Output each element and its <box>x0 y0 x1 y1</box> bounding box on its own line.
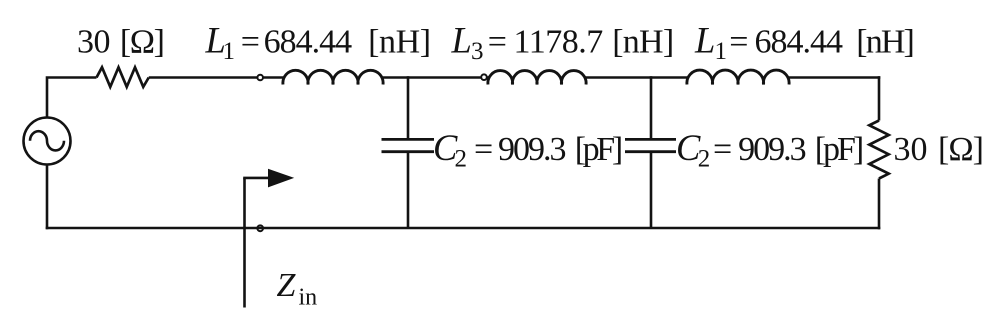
wire resistor to node a <box>149 76 257 79</box>
svg-text:=: = <box>241 24 260 61</box>
svg-text:2: 2 <box>455 146 468 173</box>
wire RL to bottom rail <box>878 179 881 230</box>
svg-text:684.44: 684.44 <box>755 24 844 61</box>
svg-text:L: L <box>451 20 472 61</box>
svg-text:30: 30 <box>894 131 928 168</box>
svg-text:[pF]: [pF] <box>815 131 865 168</box>
inductor L3 <box>488 71 586 85</box>
label L1b value <box>694 20 915 66</box>
svg-text:=: = <box>488 24 507 61</box>
svg-text:2: 2 <box>698 146 711 173</box>
svg-text:30: 30 <box>77 24 111 61</box>
svg-text:909.3: 909.3 <box>498 131 567 168</box>
label L3 value <box>451 20 675 66</box>
svg-text:=: = <box>713 131 732 168</box>
wire shunt C2a upper <box>407 76 410 139</box>
wire L1 to node b <box>382 76 481 79</box>
wire right corner down to RL <box>878 76 881 120</box>
wire node a to L1 <box>263 76 284 79</box>
label 30 ohm left <box>77 24 165 61</box>
wire source to bottom rail <box>46 165 49 230</box>
wire L1b to right corner <box>788 76 881 79</box>
label C2a value <box>433 127 623 173</box>
wire L3 to node c and on to L1b <box>585 76 689 79</box>
svg-text:684.44: 684.44 <box>264 24 353 61</box>
svg-text:[pF]: [pF] <box>575 131 624 168</box>
svg-text:1: 1 <box>715 38 728 65</box>
svg-text:[Ω]: [Ω] <box>120 24 165 61</box>
inductor L1 <box>283 70 383 84</box>
wire shunt C2b lower <box>650 152 653 228</box>
node b (open terminal) <box>481 74 487 80</box>
svg-text:L: L <box>694 20 715 61</box>
wire node b to L3 <box>487 76 489 79</box>
svg-text:[nH]: [nH] <box>612 24 674 61</box>
wire shunt C2b upper <box>650 76 653 139</box>
svg-text:[Ω]: [Ω] <box>938 131 984 168</box>
svg-text:=: = <box>729 24 748 61</box>
inductor L1b <box>687 70 789 84</box>
label 30 ohm right <box>894 131 985 168</box>
capacitor C2a <box>382 139 435 151</box>
wire shunt C2a lower <box>407 152 410 228</box>
svg-text:Z: Z <box>277 267 297 304</box>
svg-text:[nH]: [nH] <box>856 24 915 61</box>
svg-text:=: = <box>474 131 493 168</box>
svg-text:in: in <box>299 285 318 311</box>
svg-text:[nH]: [nH] <box>368 24 431 61</box>
label Zin <box>277 267 318 311</box>
Zin arrow <box>243 169 294 188</box>
wire source to top rail <box>47 78 97 118</box>
svg-text:909.3: 909.3 <box>738 131 807 168</box>
AC source VS <box>24 118 71 165</box>
svg-text:1: 1 <box>223 38 236 65</box>
node d on bottom rail <box>257 225 263 231</box>
svg-text:1178.7: 1178.7 <box>514 24 604 61</box>
capacitor C2b <box>625 139 676 151</box>
resistor RL 30 ohm (vertical) <box>869 121 888 179</box>
label L1 value <box>205 20 432 66</box>
node a (open terminal) <box>257 75 263 81</box>
Zin probe line <box>243 178 246 308</box>
wire bottom rail <box>46 227 881 230</box>
svg-text:3: 3 <box>471 38 484 65</box>
resistor RS 30 ohm <box>97 67 149 87</box>
label C2b value <box>676 127 864 173</box>
